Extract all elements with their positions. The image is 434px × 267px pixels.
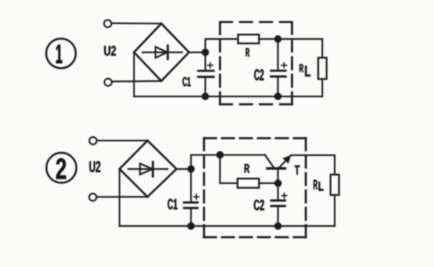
wire R to C2 node (circuit 1) [259,38,322,40]
resistor R (circuit 1) [238,35,259,44]
wire up-jog to collector rail (circuit 2) [191,155,265,169]
terminal top (circuit 1) [104,20,111,27]
diode inside bridge 1 [143,46,183,59]
label 1 [56,45,62,63]
plus sign of C2 (circuit 1) [282,63,287,68]
label U2 (circuit 2) [90,161,101,172]
bottom rail (circuit 1) [134,95,322,97]
wire terminal-top to bridge top vertex [112,22,162,24]
label C2 (circuit 2) [254,200,264,210]
label C1 (circuit 2) [168,199,178,210]
wire bridge left vertex down to bottom rail (circuit 1) [133,52,135,96]
wire terminal-bottom to bridge bottom vertex [112,80,161,83]
bottom rail (circuit 2) [120,225,335,227]
load resistor RL (circuit 2) [331,155,340,226]
bridge rectifier (circuit 1) [134,24,189,82]
bridge rectifier (circuit 2) [120,141,177,197]
label RL (circuit 1) [300,64,304,72]
junction dot R branch (circuit 2) [217,152,223,158]
transistor T (circuit 2) [265,155,291,183]
node badge 2 [46,153,76,183]
label C1 (circuit 1) [183,77,191,86]
capacitor C1 (circuit 2) [184,169,198,226]
label T (circuit 2) [295,166,300,175]
wire terminal-bottom to bridge bottom vertex (circuit 2) [97,196,148,198]
junction dot C2 bottom (circuit 1) [275,94,281,100]
junction dot C1 bottom (circuit 1) [202,94,208,100]
junction dot bridge output (circuit 1) [202,49,208,55]
terminal bottom (circuit 2) [89,194,96,201]
capacitor C2 (circuit 1) [271,39,286,96]
wire emitter to RL (circuit 2) [291,154,335,156]
wire terminal-top to bridge top vertex (circuit 2) [97,140,148,142]
wire down from collector rail to R (circuit 2) [220,155,238,183]
plus sign of C1 (circuit 1) [208,63,213,68]
junction dot bridge output (circuit 2) [188,166,194,172]
dashed regulator box (circuit 2) [204,138,306,237]
wire bridge left vertex down to bottom rail (circuit 2) [119,169,121,226]
plus sign of C1 (circuit 2) [194,194,199,199]
wire up-jog and top rail to R (circuit 1) [205,39,238,52]
junction dot base/C2 (circuit 2) [275,180,281,186]
label 2 [56,158,66,179]
resistor R (circuit 2) [238,179,260,188]
capacitor C1 (circuit 1) [198,52,213,96]
plus sign of C2 (circuit 2) [282,193,287,198]
label U2 (circuit 1) [104,46,116,56]
load resistor RL (circuit 1) [318,39,326,96]
label C2 (circuit 1) [254,69,263,80]
wire bridge right vertex to node (circuit 1) [189,51,205,53]
node badge 1 [46,39,76,69]
wire bridge right vertex to node (circuit 2) [177,168,192,170]
terminal top (circuit 2) [89,137,96,144]
diode inside bridge 2 [128,162,167,176]
dashed regulator box (circuit 1) [220,22,292,104]
label RL (circuit 2) [314,180,318,189]
terminal bottom (circuit 1) [104,79,111,86]
label R (circuit 1) [246,48,250,56]
label R (circuit 2) [245,164,250,173]
wire R to base node (circuit 2) [259,182,278,184]
junction dot R/C2 (circuit 1) [275,36,281,42]
capacitor C2 (circuit 2) [271,183,285,226]
junction dot C2 bottom (circuit 2) [275,223,281,229]
junction dot C1 bottom (circuit 2) [188,223,194,229]
